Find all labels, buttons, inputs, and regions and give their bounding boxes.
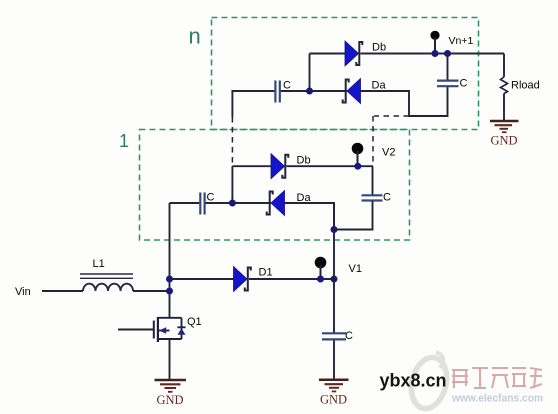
gate bar [153,321,155,339]
diode Db (stage 1) [271,154,288,179]
wire fly capn right to junction [281,90,310,92]
wire Db1 anode from corner [232,165,271,167]
wire Q1 source to GND [169,339,171,379]
wire fly capn left then down [232,91,274,117]
svg-text:www.elecfans.com: www.elecfans.com [451,392,543,404]
bulk stub [158,330,170,332]
node junction dot (320.5,279) [317,276,324,283]
svg-text:V2: V2 [382,147,395,159]
body diode triangle [178,328,186,335]
wire V1 stem [320,265,322,279]
node junction dot (334,229.5) [331,226,338,233]
wire fly cap1 left to rail [170,202,200,204]
wire main rail x=334 from box1 down to bottom cap [333,203,335,333]
svg-text:Db: Db [297,155,311,167]
svg-text:Vin: Vin [15,286,31,298]
node junction dot (334,279) [331,276,338,283]
svg-text:Db: Db [372,42,386,54]
svg-text:C: C [283,80,291,92]
wire Db-n anode from rail corner [310,53,346,55]
wire out-cap1 bottom to junction [334,201,373,230]
wire Da1 cathode to junction [232,202,271,204]
wire Da-n anode right, down, to out-capn bottom [361,87,448,116]
svg-text:Q1: Q1 [187,316,202,328]
stage box n (dashed green) [212,18,479,130]
transistor Q1 [118,317,186,342]
svg-text:V1: V1 [349,263,362,275]
capacitor C (output, bottom) [322,333,346,339]
wire Vin to L1 [42,290,83,292]
watermark swoosh circle [406,352,452,412]
svg-text:C: C [345,330,353,342]
svg-text:C: C [207,192,215,204]
svg-text:1: 1 [119,131,129,151]
dashed inter-stage link right horizontal [374,115,409,117]
wire V2 stem [357,151,359,166]
svg-text:GND: GND [156,393,183,407]
wire rail Db-n anode down to Da-n junction [309,54,311,92]
node junction dot (309.5,91) [306,88,313,95]
wire D1 anode [170,278,235,280]
node V1 big dot [315,257,327,269]
channel bar [157,317,159,342]
capacitor C flying (stage 1) [200,193,204,215]
wire Db-n cathode to Rload corner [361,53,505,55]
capacitor C output (stage n) [437,81,459,87]
node V2 big dot [352,143,364,155]
body diode cathode bar [177,326,185,328]
body diode branch [181,318,183,339]
drain stub [158,317,182,319]
diode Db (stage n) [345,41,362,66]
svg-text:Vn+1: Vn+1 [449,35,474,47]
diode Da (stage 1) [267,191,285,216]
stage box 1 (dashed green) [140,130,410,241]
resistor Rload [501,54,508,121]
node junction dot (169.5,279) [166,276,173,283]
ground (under Q1) [155,380,187,392]
wire Db1 cathode to V2 [287,165,374,167]
wire fly cap1 right to junction [206,202,233,204]
wire bottom cap to GND [333,341,335,380]
node junction dot (358,166.2) [354,163,361,170]
node junction dot (232.4,203) [229,200,236,207]
capacitor C flying (stage n) [275,81,279,103]
svg-text:C: C [460,78,468,90]
svg-text:GND: GND [490,134,517,148]
node junction dot (435,53.5) [432,50,439,57]
wire Da-n cathode to junction [310,90,348,92]
svg-text:D1: D1 [259,267,273,279]
diode Da (stage n) [343,79,361,104]
wire L1 to node [133,290,170,292]
svg-text:Rload: Rload [511,79,540,91]
diode D1 [234,267,251,292]
dashed inter-stage link left (stage n fly cap to stage1 junction) [231,117,233,164]
capacitor C output (stage 1) [362,195,383,200]
bulk arrow [159,327,166,334]
wire rail Db1 anode down to Da1 junction [231,166,233,203]
node Vn+1 big dot [430,31,439,40]
wire vertical rail x=169.5 from box1 cap down to MOSFET drain [169,203,171,318]
node junction dot (447.5,53.5) [444,50,451,57]
svg-text:ybx8.cn: ybx8.cn [380,371,447,391]
source stub [158,338,182,340]
ground (under bottom C) [319,380,349,392]
gate wire [118,329,153,331]
svg-text:C: C [383,191,391,203]
inductor L1 [80,274,133,291]
wire Vn+1 down to out-cap (stage n) [447,54,449,81]
watermark chinese logo glyph blocks [452,368,542,388]
svg-text:L1: L1 [93,258,105,270]
svg-text:GND: GND [320,393,347,407]
wire D1 cathode to V1 rail [249,278,334,280]
svg-text:n: n [189,24,201,49]
node junction dot (169.5,291) [166,288,173,295]
svg-text:Da: Da [372,79,387,91]
wire Da1 anode right then down [285,203,335,230]
ground (under Rload) [490,121,519,132]
dashed inter-stage link right vertical (down to V2) [372,116,374,165]
wire Vn+1 stem [434,38,436,54]
wire V2 corner down to out-cap (stage1) [372,166,374,195]
